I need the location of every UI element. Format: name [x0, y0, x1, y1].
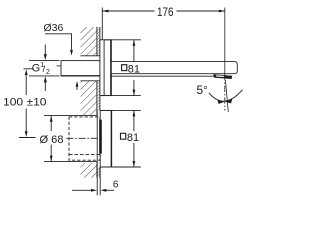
svg-text:81: 81 — [128, 63, 140, 75]
svg-text:81: 81 — [127, 132, 139, 144]
dia68 text — [39, 131, 66, 145]
dimension 176 line — [102, 10, 225, 12]
upper square body plate — [100, 40, 111, 96]
G 1/2 top arrow — [44, 54, 47, 60]
svg-text:100 ±10: 100 ±10 — [3, 96, 47, 108]
lower sq81 dim line — [133, 110, 135, 167]
svg-text:2: 2 — [46, 69, 50, 76]
upper wall hole edge top — [81, 55, 100, 57]
100pm10 dim line lower part with down arrow — [25, 109, 27, 133]
dia36 lower arrow up to hole bottom — [76, 81, 79, 87]
176 text — [155, 5, 177, 18]
176 right extension / outlet centerline — [224, 8, 226, 74]
aerator outlet — [213, 74, 232, 79]
upper sq81 extension bottom — [100, 95, 141, 97]
upper sq81 extension top — [104, 39, 141, 41]
upper sq81 dim line — [133, 40, 135, 96]
G 1/2 bottom arrow — [44, 76, 47, 82]
spout underside far edge — [111, 75, 213, 77]
5 degree arc — [209, 90, 243, 101]
lower sq81 down arrow — [133, 161, 136, 167]
dimension 176 left arrow — [102, 10, 108, 13]
shank bottom edge shadow line — [61, 75, 100, 77]
100pm10 bottom tick — [19, 137, 36, 139]
svg-text:5°: 5° — [197, 83, 209, 97]
svg-text:176: 176 — [157, 5, 174, 19]
supply shank G1/2 — [61, 61, 100, 76]
lower hole edge top / dia68 ext top — [44, 114, 97, 116]
lower hole edge bottom / dia68 ext bottom — [44, 161, 97, 163]
G 1/2 extension bottom — [29, 75, 60, 77]
dia68 down arrow — [50, 156, 53, 162]
G1/2 leader tick to shank — [57, 65, 62, 67]
lower plate front line below — [99, 167, 101, 195]
100pm10 top tick — [24, 68, 34, 70]
lower sq81 extension bottom — [100, 166, 141, 168]
5 degree arc left arrow — [217, 99, 224, 104]
box centerline dash-dot — [67, 137, 102, 139]
outlet centerline dash-dot — [224, 74, 226, 111]
dim 6 right arrow — [100, 189, 106, 192]
lower body front face thick — [110, 110, 112, 167]
upper sq81 down arrow — [133, 90, 136, 96]
5 degree arc right arrow — [225, 99, 232, 104]
upper plate front edge — [103, 40, 105, 96]
upper body front face thick — [110, 40, 112, 96]
concealed box inner bottom dashed — [69, 154, 100, 156]
lower sq81 text — [121, 133, 126, 139]
dim 6 left arrow — [72, 189, 92, 191]
svg-text:Ø 68: Ø 68 — [40, 134, 64, 146]
wall hatch middle section — [81, 81, 97, 116]
upper wall hole edge bottom — [81, 80, 100, 82]
lower plate back line — [96, 110, 98, 195]
spout — [111, 62, 237, 74]
wall structural face line — [96, 27, 98, 178]
wall finished surface line — [99, 27, 101, 178]
wall hatch upper section — [81, 27, 97, 56]
wall finish dense hatch upper — [97, 27, 100, 56]
wall hatch lower section — [81, 163, 97, 178]
upper sq81 text — [122, 65, 127, 71]
dia36 leader — [45, 34, 72, 50]
dia68 dim line — [50, 116, 52, 162]
upper sq81 up arrow — [133, 40, 136, 46]
lower sq81 extension top — [100, 109, 141, 111]
G 1/2 extension top — [29, 60, 60, 62]
svg-text:Ø36: Ø36 — [44, 22, 64, 34]
lower body — [100, 110, 111, 167]
sensor collar black band — [99, 120, 102, 154]
176 left extension line — [101, 8, 103, 40]
dimension 176 right arrow — [219, 10, 225, 13]
wall finish dense hatch lower — [97, 167, 100, 178]
svg-text:6: 6 — [113, 180, 119, 191]
dia36 leader arrow down to hole top — [70, 50, 73, 56]
lower sq81 up arrow — [133, 111, 136, 117]
wall finish dense hatch middle — [97, 81, 100, 111]
5 degree tilted stream line — [225, 80, 228, 112]
dia68 up arrow — [50, 116, 53, 122]
100pm10 dim line upper part with up arrow — [25, 69, 28, 75]
concealed box dashed — [69, 117, 100, 160]
